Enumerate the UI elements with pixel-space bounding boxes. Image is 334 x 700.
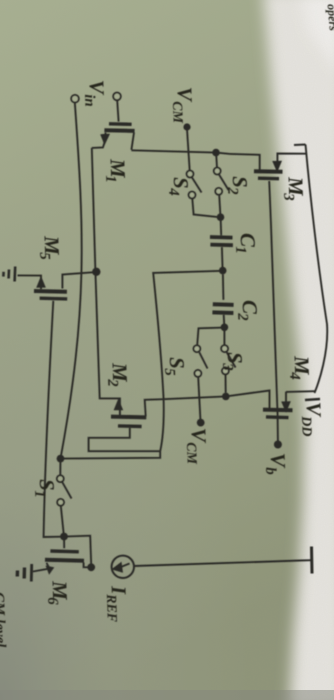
- wire IREF to VDD stub: [134, 561, 300, 567]
- label M4: [286, 355, 315, 381]
- label S5: [161, 357, 190, 377]
- capacitor C2: [212, 274, 233, 324]
- svg-text:1: 1: [31, 490, 47, 498]
- label M2: [104, 362, 133, 388]
- svg-text:2: 2: [224, 186, 240, 196]
- label VCM left: [168, 87, 197, 124]
- svg-text:in: in: [81, 94, 97, 107]
- node VDD stub cap: [310, 547, 314, 574]
- terminal VCM left: [183, 123, 190, 130]
- node M6 drain: [87, 563, 95, 571]
- label S1: [31, 479, 60, 498]
- node VDD rail end cap: [305, 399, 320, 400]
- terminal VCM right: [197, 419, 205, 427]
- wire VCM to S4: [187, 129, 190, 171]
- label Vb: [262, 453, 291, 476]
- transistor M2: [89, 400, 160, 452]
- svg-text:4: 4: [165, 187, 181, 197]
- node J3: [221, 324, 229, 332]
- ground M6: [17, 564, 31, 582]
- label VCM right: [182, 428, 211, 465]
- node Vb terminal: [274, 441, 282, 449]
- label M6: [44, 580, 73, 606]
- switch S5: [194, 345, 208, 419]
- terminal M1 gate: [113, 93, 121, 101]
- svg-text:5: 5: [36, 252, 52, 261]
- svg-text:CM: CM: [169, 101, 185, 124]
- label M3: [280, 176, 309, 202]
- label IREF: [103, 585, 132, 624]
- transistor M1: [92, 100, 135, 150]
- svg-text:1: 1: [232, 246, 248, 254]
- wire J3 to S5: [197, 328, 224, 346]
- svg-text:REF: REF: [103, 593, 119, 623]
- svg-text:4: 4: [286, 371, 302, 381]
- node mirror gate: [60, 533, 68, 541]
- svg-text:2: 2: [104, 378, 120, 388]
- corner text fragment: [324, 3, 334, 31]
- svg-text:6: 6: [44, 597, 60, 606]
- label M1: [102, 158, 131, 183]
- transistor M6: [33, 540, 84, 574]
- capacitor C1: [210, 221, 233, 268]
- terminal Vin: [71, 95, 79, 103]
- svg-text:3: 3: [280, 192, 296, 202]
- wire diode connection M6: [64, 536, 91, 568]
- svg-text:5: 5: [161, 368, 177, 377]
- node S1 input: [57, 455, 65, 463]
- wire M4 source to rail: [286, 390, 315, 393]
- svg-text:3: 3: [219, 362, 235, 372]
- label M5: [36, 235, 65, 261]
- wire M3 drain to node X1: [131, 150, 230, 154]
- label C2: [234, 300, 263, 322]
- label S4: [165, 177, 194, 197]
- svg-text:2: 2: [234, 312, 250, 322]
- switch S3: [221, 330, 235, 393]
- transistor M4: [263, 392, 293, 418]
- label S2: [224, 176, 253, 196]
- node X1: [212, 149, 220, 157]
- transistor M3: [230, 154, 306, 179]
- label S3: [219, 352, 248, 372]
- switch S1: [57, 462, 72, 533]
- wire output node: [145, 391, 270, 417]
- svg-text:1: 1: [102, 175, 118, 183]
- caption CM level: [0, 592, 8, 649]
- svg-text:CM level: CM level: [0, 592, 8, 649]
- switch S2: [214, 156, 229, 214]
- current source IREF: [112, 556, 134, 578]
- label VDD: [298, 402, 327, 437]
- wire Vin long: [61, 103, 82, 459]
- svg-text:b: b: [262, 467, 278, 476]
- node J2: [219, 267, 227, 275]
- page edge white strip: [263, 0, 334, 700]
- node J1: [217, 213, 225, 221]
- node output O: [222, 393, 230, 401]
- label C1: [232, 233, 261, 254]
- wire VDD rail: [294, 145, 327, 394]
- svg-text:CM: CM: [183, 442, 199, 465]
- node tail: [92, 268, 100, 276]
- wire bias line M3 gate to M4 gate: [269, 181, 278, 441]
- ground M5: [3, 267, 15, 282]
- transistor M5: [18, 272, 95, 537]
- wire tail: [92, 148, 120, 416]
- label Vin: [81, 80, 110, 107]
- switch S4: [187, 171, 217, 217]
- wire J2 to M2 gate region: [61, 271, 223, 459]
- svg-text:DD: DD: [298, 415, 314, 437]
